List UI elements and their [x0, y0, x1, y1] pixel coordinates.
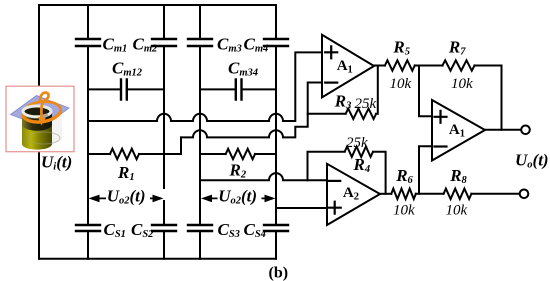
svg-text:(b): (b): [269, 265, 289, 281]
wire W1 to A1 plus with hops: [88, 52, 322, 121]
op-amp A1 top: [322, 35, 374, 98]
svg-text:R5: R5: [392, 38, 410, 58]
svg-text:CS2: CS2: [131, 220, 154, 240]
op-amp A2: [327, 164, 380, 225]
op-amp A1 right: [432, 100, 485, 161]
svg-text:R1: R1: [117, 163, 135, 183]
wire A2 plus input: [276, 207, 327, 209]
wire R8 to terminal: [471, 193, 519, 195]
svg-text:R3: R3: [334, 92, 352, 112]
svg-text:CS3: CS3: [218, 220, 240, 240]
svg-text:R7: R7: [448, 38, 466, 58]
capacitor Cm12: [88, 80, 164, 100]
svg-text:10k: 10k: [451, 76, 473, 92]
plus sign A1 top: [325, 46, 337, 58]
capacitor Cm1: [76, 39, 100, 46]
wire R5 to R7: [415, 65, 443, 67]
resistor R8: [444, 189, 472, 199]
label Uo2 right: [218, 187, 262, 207]
svg-text:CS4: CS4: [244, 220, 266, 240]
wire A1 top output: [374, 65, 385, 67]
arrow Uo2 right: [201, 195, 276, 203]
wire R1 jog up: [180, 137, 182, 154]
terminal lower output: [520, 190, 529, 199]
capacitor Cm34: [200, 80, 276, 100]
plus sign A1 right: [435, 111, 447, 123]
minus sign A2: [328, 180, 340, 182]
svg-text:25k: 25k: [346, 135, 368, 151]
wire R6 to R8: [416, 193, 444, 195]
node rail V3 x=200: [199, 5, 201, 259]
svg-text:Cm1: Cm1: [103, 35, 128, 55]
svg-text:10k: 10k: [390, 76, 412, 92]
svg-text:Cm4: Cm4: [244, 35, 269, 55]
svg-text:R6: R6: [395, 166, 413, 186]
minus sign A1 top: [325, 81, 337, 83]
svg-text:Ui(t): Ui(t): [41, 153, 72, 173]
capacitor CS1: [76, 225, 100, 231]
capacitor Cm2: [152, 39, 176, 46]
capacitor Cm3: [188, 39, 212, 46]
svg-text:10k: 10k: [446, 203, 468, 219]
resistor R3 with feedback wires: [308, 66, 378, 120]
wire outer box top: [39, 4, 276, 6]
svg-text:Cm12: Cm12: [112, 59, 143, 79]
svg-text:Cm34: Cm34: [228, 59, 258, 79]
svg-text:R2: R2: [229, 161, 247, 181]
svg-text:CS1: CS1: [104, 220, 126, 240]
svg-text:Cm2: Cm2: [133, 35, 159, 55]
svg-text:R4: R4: [353, 155, 371, 175]
wire W3 to A2 minus with hop: [200, 173, 327, 180]
capacitor CS3: [188, 225, 212, 231]
wire outer box left: [38, 5, 40, 259]
svg-text:R8: R8: [449, 166, 467, 186]
capacitor Cm4: [264, 39, 288, 46]
svg-text:Cm3: Cm3: [217, 35, 242, 55]
minus sign A1 right: [435, 145, 447, 147]
terminal upper output: [521, 126, 530, 135]
wire A1 right minus to R6R8 junction: [419, 146, 432, 194]
resistor R5: [385, 60, 415, 70]
node rail V1 x=88: [87, 5, 89, 259]
plus sign A2: [329, 202, 341, 214]
resistor R4 with feedback wires: [308, 147, 386, 194]
sensor icon: [6, 86, 74, 152]
svg-text:10k: 10k: [393, 203, 415, 219]
resistor R6: [391, 189, 416, 199]
wire A2 output: [380, 193, 391, 195]
svg-text:Uo(t): Uo(t): [515, 151, 549, 171]
wire outer box bottom: [39, 258, 276, 260]
node rail V2 x=164: [163, 5, 165, 259]
wire junction to A1 right plus: [419, 66, 432, 117]
wire W2 to A1 minus with hops: [181, 83, 322, 138]
wire A1 right output: [485, 129, 521, 131]
capacitor CS4: [264, 225, 288, 231]
node rail V4 x=276: [275, 5, 277, 259]
wire R7 feedback to output: [475, 66, 502, 130]
resistor R1: [88, 149, 181, 159]
resistor R2: [200, 149, 276, 159]
label Uo2 left: [106, 187, 150, 207]
arrow Uo2 left: [89, 195, 164, 203]
svg-text:25k: 25k: [355, 96, 377, 112]
capacitor CS2: [152, 225, 176, 231]
resistor R7: [443, 60, 475, 70]
